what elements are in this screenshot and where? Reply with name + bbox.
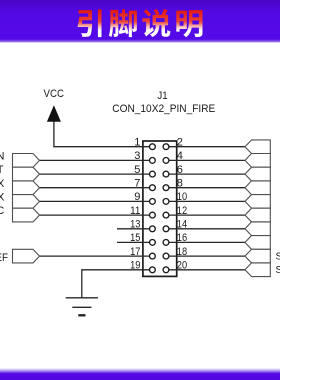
pin 17 hole [150,253,156,259]
svg-text:EF: EF [0,252,8,264]
ground symbol [66,298,98,316]
svg-text:S: S [276,252,281,263]
pin 5 hole [150,171,156,177]
svg-text:S: S [276,265,281,276]
pin 4 hole [163,158,169,164]
wire pin 2 to right flag [166,146,245,148]
wire pin 4 to right flag [166,159,245,161]
net flag pin 10 [245,195,270,209]
pin 6 hole [163,171,169,177]
pin 8 hole [163,185,169,191]
net flag pin 16 [245,236,270,250]
svg-text:9: 9 [134,191,140,203]
wire pin 12 to right flag [166,214,245,216]
svg-text:CON_10X2_PIN_FIRE: CON_10X2_PIN_FIRE [112,103,215,115]
banner title 引脚说明 (glyph outlines) [78,9,203,37]
svg-text:12: 12 [177,205,187,217]
svg-text:J1: J1 [157,90,167,102]
svg-text:20: 20 [177,260,187,272]
wire REF flag to pin 17 [40,255,153,257]
power symbol VCC arrow [47,105,61,122]
pin 9 hole [150,199,156,205]
net flag pin 12 [245,208,270,222]
svg-text:15: 15 [130,232,140,244]
pin 1 hole [150,144,156,150]
pin 18 hole [163,253,169,259]
pin 20 hole [163,267,169,273]
wire net flag to pin 9 [40,200,153,202]
wire pin 14 to right flag [166,228,245,230]
wire net flag to pin 7 [40,187,153,189]
net flag pin 20 [245,263,270,277]
wire net flag to pin 5 [40,173,153,175]
wire pin 8 to right flag [166,187,245,189]
svg-text:17: 17 [130,246,140,258]
svg-text:4: 4 [177,150,183,162]
pin 2 hole [163,144,169,150]
svg-text:2: 2 [177,137,183,149]
wire net flag to pin 11 [40,214,153,216]
net flag pin 2 [245,140,270,154]
pin 15 hole [150,240,156,246]
wire pin 19 to ground [82,270,153,298]
net flag pin 14 [245,222,270,236]
net flag pin 8 [245,181,270,195]
net flag pin 4 [245,154,270,168]
pin 16 hole [163,240,169,246]
svg-text:8: 8 [177,178,183,190]
net flag pin 9 [13,195,40,209]
connector J1 body [143,141,177,276]
svg-text:T: T [0,164,4,176]
pin 3 hole [150,158,156,164]
wire pin 6 to right flag [166,173,245,175]
bottom strip [0,368,280,380]
pin 13 hole [150,226,156,232]
svg-text:18: 18 [177,246,187,258]
pin 10 hole [163,199,169,205]
pin 7 hole [150,185,156,191]
svg-text:11: 11 [130,205,140,217]
net flag pin 6 [245,167,270,181]
svg-text:VCC: VCC [44,88,65,100]
wire pin 20 to right flag [166,269,245,271]
svg-text:10: 10 [177,191,187,203]
wire VCC to pin 1 [54,122,152,147]
pin 11 hole [150,212,156,218]
svg-text:N: N [0,151,4,163]
svg-text:6: 6 [177,164,183,176]
net flag pin 5 [13,167,40,181]
net flag pin 11 [13,208,40,222]
net flag pin 7 [13,181,40,195]
svg-text:C: C [0,205,4,217]
svg-text:5: 5 [134,164,140,176]
wire pin 18 to right flag [166,255,245,257]
pin 19 hole [150,267,156,273]
wire stub pin 15 [117,241,152,243]
svg-text:14: 14 [177,219,187,231]
svg-text:X: X [0,192,5,204]
net flag pin 18 [245,249,270,263]
svg-text:19: 19 [130,260,140,272]
top banner [0,0,280,43]
wire net flag to pin 3 [40,159,153,161]
svg-text:7: 7 [134,178,140,190]
pin 14 hole [163,226,169,232]
svg-text:1: 1 [134,137,140,149]
net flag REF pin 17 [13,249,40,263]
wire pin 10 to right flag [166,200,245,202]
wire stub pin 13 [117,228,152,230]
svg-text:X: X [0,178,5,190]
net flag pin 3 [13,154,40,168]
svg-text:13: 13 [130,219,140,231]
svg-text:3: 3 [134,150,140,162]
svg-text:16: 16 [177,232,187,244]
wire pin 16 to right flag [166,241,245,243]
pin 12 hole [163,212,169,218]
